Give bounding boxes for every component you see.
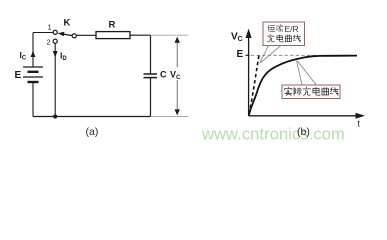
junction dot (ID branch joins bottom wire)	[53, 114, 57, 118]
wire: pivot to resistor	[76, 34, 96, 36]
callout box2 (actual curve label)	[282, 85, 340, 99]
graph Y axis	[248, 37, 250, 116]
resistor R (box)	[96, 32, 130, 39]
battery E: top long plate	[23, 66, 43, 68]
wire: resistor to right corner	[130, 34, 151, 36]
white backing for VC label	[170, 67, 183, 80]
svg-text:(a): (a)	[86, 126, 99, 138]
dashed constant-current charging line	[249, 55, 259, 114]
capacitor C: bottom plate	[144, 77, 158, 79]
current arrow IC (pointing up on left wire)	[31, 51, 36, 58]
wire: right vertical lower (capacitor to bottom wire)	[150, 78, 152, 117]
svg-text:2: 2	[47, 38, 51, 47]
graph Y axis arrowhead	[246, 29, 252, 39]
text in box2: 实际充电曲线	[285, 87, 339, 95]
battery E: bottom short thick plate	[28, 81, 39, 83]
svg-text:E: E	[237, 49, 244, 60]
text in box1 line1: 恒流E/R	[268, 24, 299, 34]
battery E: lower long plate	[23, 76, 43, 78]
wire: vertical from contact 2 down to bottom wire	[54, 43, 56, 116]
switch contact 2 (circle)	[53, 39, 57, 43]
actual charging curve (exponential)	[249, 56, 357, 116]
capacitor C: top plate	[144, 73, 158, 75]
svg-text:(b): (b)	[297, 126, 310, 138]
switch K arm wire	[63, 34, 72, 36]
switch contact 1 (circle)	[53, 30, 57, 34]
callout lines from box2 to curve	[297, 61, 317, 85]
text in box1 line2: 充电曲线	[268, 35, 301, 42]
wire: left vertical (battery branch lower)	[32, 82, 34, 117]
callout box1 (constant current label)	[263, 22, 305, 46]
wire: top-left horizontal from battery branch to switch contact 1	[33, 32, 53, 34]
dashed E level line	[251, 54, 352, 56]
switch K arm arrowhead pointing to contact 1	[58, 32, 65, 37]
extension line bottom (for VC measurement)	[151, 116, 189, 118]
svg-text:E/R: E/R	[285, 24, 299, 34]
VC measurement arrowhead down	[175, 109, 180, 115]
VC measurement line (vertical)	[176, 39, 178, 113]
switch K pivot (circle)	[72, 34, 76, 38]
battery E: upper short thick plate	[28, 71, 39, 73]
callout lines from box1 to dashed line	[260, 46, 281, 63]
graph X axis	[249, 115, 358, 117]
wire: bottom horizontal	[33, 116, 151, 118]
VC measurement arrowhead up	[175, 37, 180, 43]
extension line top (for VC measurement)	[151, 34, 189, 36]
E tick on Y axis	[246, 54, 250, 56]
svg-text:www.cntronics.com: www.cntronics.com	[201, 126, 345, 144]
current arrow ID (pointing down on branch from contact 2)	[53, 51, 58, 58]
svg-text:R: R	[109, 20, 116, 31]
svg-text:E: E	[15, 70, 22, 81]
svg-text:C: C	[160, 70, 167, 80]
svg-text:K: K	[64, 18, 71, 29]
graph X axis arrowhead	[356, 113, 366, 119]
wire: right vertical upper (to capacitor)	[150, 35, 152, 74]
svg-text:1: 1	[48, 23, 52, 32]
wire: left vertical (battery branch upper)	[32, 33, 34, 68]
